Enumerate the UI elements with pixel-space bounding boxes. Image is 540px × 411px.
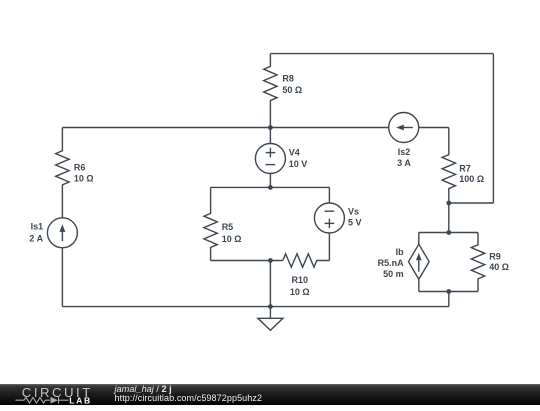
svg-text:2 A: 2 A — [29, 233, 43, 243]
svg-text:R7: R7 — [459, 164, 471, 174]
svg-text:100 Ω: 100 Ω — [459, 174, 484, 184]
wire Is2 right to R7 — [419, 127, 449, 129]
svg-text:10 Ω: 10 Ω — [222, 234, 242, 244]
svg-text:10 Ω: 10 Ω — [74, 174, 94, 184]
svg-text:40 Ω: 40 Ω — [489, 262, 509, 272]
svg-text:R8: R8 — [282, 74, 294, 84]
svg-text:3 A: 3 A — [397, 158, 411, 168]
wire Is1 to bottom rail — [61, 248, 63, 307]
wire middle loop bottom rail left — [211, 260, 283, 262]
junction node 4 — [268, 304, 273, 309]
wire Ib/R9 loop top rail — [419, 232, 478, 234]
resistor R6 — [56, 128, 69, 218]
resistor R9 — [471, 233, 484, 292]
resistor R8 — [264, 54, 277, 128]
wire right rail to R7 node — [449, 202, 494, 204]
svg-text:50 Ω: 50 Ω — [282, 85, 302, 95]
wire bottom rail — [62, 306, 448, 308]
dependent current source Ib — [418, 233, 420, 245]
current source Is2 — [389, 113, 419, 143]
svg-text:10 Ω: 10 Ω — [290, 287, 310, 297]
junction node 3 — [268, 258, 273, 263]
svg-text:http://circuitlab.com/c59872pp: http://circuitlab.com/c59872pp5uhz2 — [115, 393, 263, 403]
wire middle loop top rail — [211, 186, 330, 188]
svg-text:LAB: LAB — [69, 395, 91, 405]
wire right rail — [492, 54, 494, 203]
svg-text:10 V: 10 V — [289, 159, 308, 169]
wire row A (node between R6, R8, V4, Is2) — [62, 127, 388, 129]
voltage source Vs — [328, 187, 330, 203]
svg-text:R9: R9 — [489, 252, 501, 262]
svg-text:R6: R6 — [74, 163, 86, 173]
svg-text:50 m: 50 m — [383, 269, 404, 279]
junction node 7 — [446, 289, 451, 294]
wire R7 node to loop node — [448, 203, 450, 233]
svg-text:5 V: 5 V — [348, 218, 362, 228]
logo resistor-diode squiggle — [16, 396, 69, 403]
junction node 2 — [268, 185, 273, 190]
svg-text:Ib: Ib — [396, 247, 405, 257]
resistor R5 — [204, 187, 217, 260]
resistor R7 — [442, 128, 455, 204]
ground — [258, 318, 283, 330]
logo diode triangle — [51, 396, 59, 403]
footer bar — [0, 384, 540, 406]
current source Is1 — [47, 218, 77, 248]
junction node 6 — [446, 230, 451, 235]
wire ground column — [269, 261, 271, 319]
svg-text:R10: R10 — [292, 275, 309, 285]
svg-text:Is2: Is2 — [398, 147, 411, 157]
svg-text:Is1: Is1 — [31, 221, 44, 231]
resistor R10 — [283, 254, 330, 267]
wire bottom rail up to Ib/R9 loop — [448, 292, 450, 307]
svg-text:V4: V4 — [289, 147, 300, 157]
svg-text:R5.nA: R5.nA — [378, 258, 405, 268]
junction node 1 — [268, 125, 273, 130]
svg-text:Vs: Vs — [348, 206, 359, 216]
junction node 5 — [446, 201, 451, 206]
voltage source V4 — [269, 128, 271, 144]
wire top rail — [270, 53, 493, 55]
wire Ib/R9 loop bottom rail — [419, 291, 478, 293]
svg-text:R5: R5 — [222, 222, 234, 232]
